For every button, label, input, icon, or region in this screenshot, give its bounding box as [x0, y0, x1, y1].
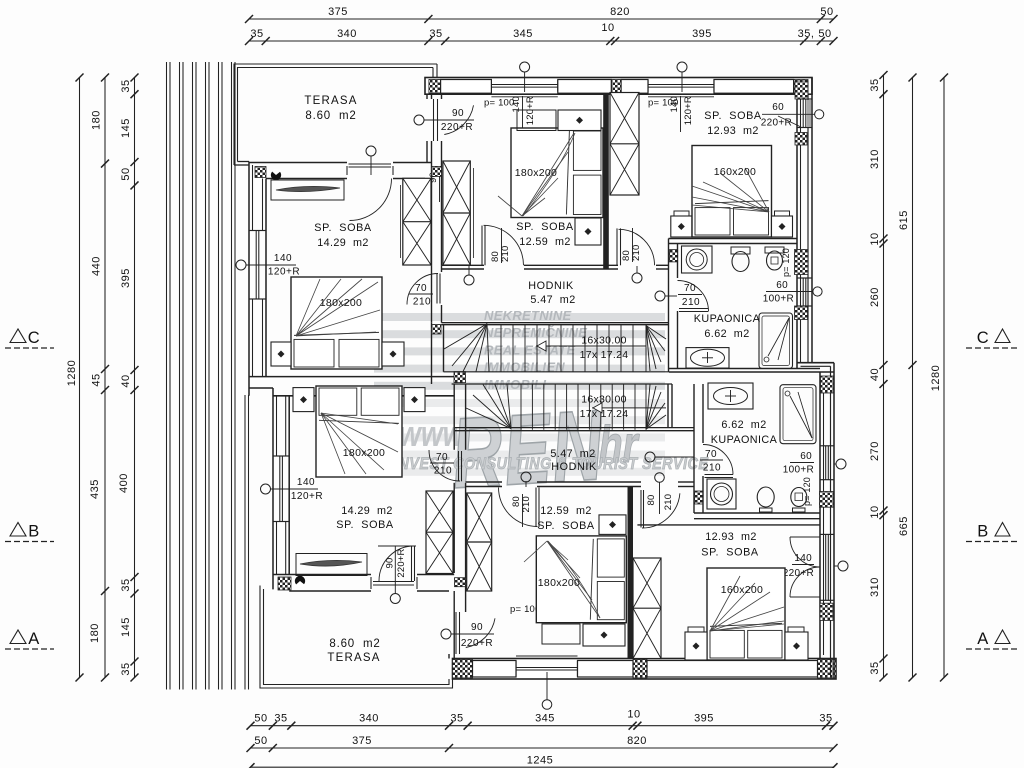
svg-text:1280: 1280: [930, 365, 942, 391]
svg-text:210: 210: [682, 297, 700, 308]
svg-text:395: 395: [694, 713, 714, 725]
svg-text:NEPREMIČNINE: NEPREMIČNINE: [484, 325, 587, 340]
svg-text:160x200: 160x200: [714, 166, 756, 178]
svg-text:35: 35: [429, 28, 442, 40]
svg-text:A: A: [28, 630, 40, 648]
svg-text:p= 120: p= 120: [781, 248, 791, 277]
svg-text:80: 80: [646, 495, 657, 506]
svg-text:260: 260: [869, 287, 881, 307]
svg-text:440: 440: [91, 256, 103, 276]
svg-text:45: 45: [91, 373, 103, 386]
svg-text:14.29 m2: 14.29 m2: [317, 237, 369, 249]
svg-text:140: 140: [297, 477, 315, 488]
svg-text:220+R: 220+R: [441, 122, 473, 133]
svg-text:5.47 m2: 5.47 m2: [550, 448, 595, 460]
svg-text:340: 340: [337, 28, 357, 40]
svg-text:395: 395: [120, 268, 132, 288]
svg-text:5.47 m2: 5.47 m2: [530, 294, 575, 306]
svg-text:16x30.00: 16x30.00: [581, 394, 627, 406]
svg-text:220+R: 220+R: [761, 118, 792, 129]
svg-text:40: 40: [120, 374, 132, 387]
svg-text:70: 70: [705, 449, 717, 460]
svg-text:SP. SOBA: SP. SOBA: [516, 221, 574, 233]
svg-text:90: 90: [471, 622, 483, 633]
svg-text:100+R: 100+R: [783, 465, 814, 476]
svg-text:210: 210: [413, 297, 431, 308]
svg-text:12.93 m2: 12.93 m2: [707, 125, 759, 137]
svg-text:70: 70: [436, 452, 448, 463]
svg-text:SP. SOBA: SP. SOBA: [314, 222, 372, 234]
svg-text:345: 345: [535, 713, 555, 725]
svg-text:60: 60: [776, 280, 788, 291]
svg-text:50: 50: [254, 713, 267, 725]
svg-text:210: 210: [663, 494, 674, 510]
svg-text:60: 60: [800, 451, 812, 462]
svg-text:435: 435: [89, 479, 101, 499]
svg-text:p= 120: p= 120: [802, 477, 812, 506]
svg-text:p= 100: p= 100: [484, 98, 515, 109]
svg-text:345: 345: [513, 28, 533, 40]
svg-text:210: 210: [434, 466, 452, 477]
svg-text:180x200: 180x200: [538, 577, 580, 589]
svg-text:REAL ESTATE: REAL ESTATE: [484, 342, 575, 357]
svg-text:90: 90: [385, 558, 396, 569]
svg-text:140: 140: [274, 253, 292, 264]
svg-text:140: 140: [669, 96, 680, 112]
svg-text:210: 210: [631, 245, 642, 261]
svg-text:35: 35: [869, 661, 881, 674]
svg-text:8.60 m2: 8.60 m2: [329, 638, 380, 650]
svg-text:35: 35: [450, 713, 463, 725]
svg-text:10: 10: [869, 232, 881, 245]
svg-text:160x200: 160x200: [721, 584, 763, 596]
svg-text:70: 70: [684, 283, 696, 294]
svg-text:B: B: [977, 523, 989, 541]
svg-text:35: 35: [120, 79, 132, 92]
svg-text:12.93 m2: 12.93 m2: [705, 531, 757, 543]
svg-text:395: 395: [692, 28, 712, 40]
svg-text:180x200: 180x200: [515, 167, 557, 179]
svg-text:6.62 m2: 6.62 m2: [704, 328, 749, 340]
svg-text:SP. SOBA: SP. SOBA: [537, 520, 595, 532]
svg-text:10: 10: [869, 505, 881, 518]
svg-text:50: 50: [254, 735, 267, 747]
svg-text:220+R: 220+R: [396, 548, 407, 577]
svg-text:210: 210: [703, 463, 721, 474]
svg-text:35: 35: [250, 28, 263, 40]
svg-text:50: 50: [120, 167, 132, 180]
svg-text:KUPAONICA: KUPAONICA: [711, 434, 778, 446]
svg-text:35: 35: [819, 713, 832, 725]
svg-text:820: 820: [627, 735, 647, 747]
svg-text:210: 210: [500, 246, 511, 262]
svg-text:HODNIK: HODNIK: [528, 280, 574, 292]
svg-text:145: 145: [120, 118, 132, 138]
svg-text:180: 180: [89, 623, 101, 643]
svg-text:820: 820: [610, 6, 630, 18]
svg-text:35: 35: [120, 578, 132, 591]
svg-text:100+R: 100+R: [763, 294, 794, 305]
svg-text:35: 35: [869, 78, 881, 91]
svg-text:120+R: 120+R: [268, 267, 300, 278]
svg-text:40: 40: [869, 368, 881, 381]
svg-text:14.29 m2: 14.29 m2: [341, 505, 393, 517]
svg-text:12.59 m2: 12.59 m2: [519, 236, 571, 248]
svg-text:310: 310: [869, 149, 881, 169]
svg-text:HODNIK: HODNIK: [551, 461, 597, 473]
svg-text:12.59 m2: 12.59 m2: [540, 505, 592, 517]
svg-text:180x200: 180x200: [320, 297, 362, 309]
svg-text:C: C: [28, 329, 40, 347]
svg-text:140: 140: [794, 553, 812, 564]
svg-text:220+R: 220+R: [783, 568, 814, 579]
svg-text:SP. SOBA: SP. SOBA: [701, 547, 759, 559]
svg-text:6.62 m2: 6.62 m2: [721, 419, 766, 431]
svg-text:B: B: [28, 523, 40, 541]
svg-text:270: 270: [869, 441, 881, 461]
svg-text:A: A: [977, 630, 989, 648]
svg-text:TERASA: TERASA: [304, 95, 357, 107]
svg-text:50: 50: [820, 6, 833, 18]
svg-text:375: 375: [352, 735, 372, 747]
svg-text:145: 145: [120, 617, 132, 637]
svg-text:50: 50: [818, 28, 831, 40]
svg-text:340: 340: [359, 713, 379, 725]
svg-text:KUPAONICA: KUPAONICA: [694, 313, 761, 325]
svg-text:SP. SOBA: SP. SOBA: [336, 519, 394, 531]
svg-text:1245: 1245: [527, 755, 553, 767]
svg-text:SP. SOBA: SP. SOBA: [704, 110, 762, 122]
svg-text:8.60 m2: 8.60 m2: [305, 110, 356, 122]
svg-text:17x 17.24: 17x 17.24: [580, 408, 629, 420]
svg-text:1280: 1280: [66, 360, 78, 386]
svg-text:35: 35: [274, 713, 287, 725]
svg-text:35: 35: [120, 662, 132, 675]
svg-text:220+R: 220+R: [461, 638, 493, 649]
svg-text:615: 615: [898, 210, 910, 230]
svg-text:60: 60: [772, 102, 784, 113]
svg-text:120+R: 120+R: [683, 96, 694, 125]
svg-text:C: C: [977, 329, 989, 347]
svg-text:70: 70: [415, 283, 427, 294]
svg-text:TERASA: TERASA: [327, 652, 380, 664]
svg-text:90: 90: [452, 108, 464, 119]
svg-text:180: 180: [91, 110, 103, 130]
svg-text:17x 17.24: 17x 17.24: [580, 349, 629, 361]
svg-text:210: 210: [521, 496, 532, 512]
svg-text:375: 375: [328, 6, 348, 18]
svg-text:665: 665: [898, 516, 910, 536]
svg-text:120+R: 120+R: [291, 491, 323, 502]
svg-text:16x30.00: 16x30.00: [581, 335, 627, 347]
svg-text:NEKRETNINE: NEKRETNINE: [484, 308, 572, 323]
svg-text:120+R: 120+R: [525, 96, 536, 125]
svg-text:180x200: 180x200: [343, 447, 385, 459]
svg-text:35,: 35,: [798, 28, 815, 40]
svg-text:400: 400: [118, 473, 130, 493]
svg-text:10: 10: [627, 709, 640, 721]
svg-text:10: 10: [601, 22, 614, 34]
svg-text:310: 310: [869, 577, 881, 597]
